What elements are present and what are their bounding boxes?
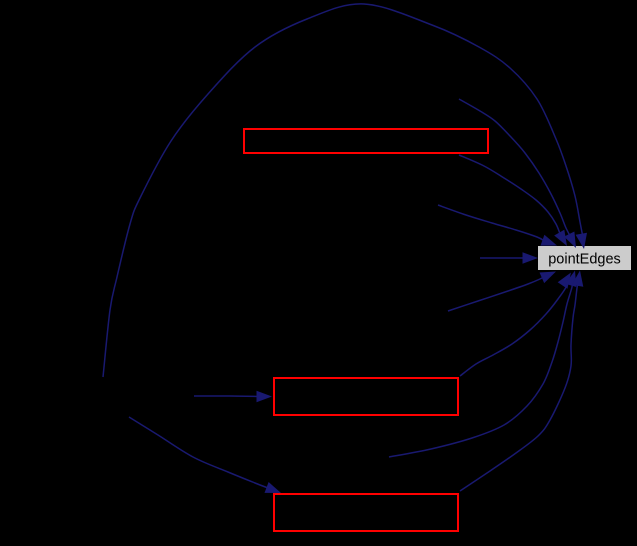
svg-text:pointEdges: pointEdges	[548, 252, 621, 268]
